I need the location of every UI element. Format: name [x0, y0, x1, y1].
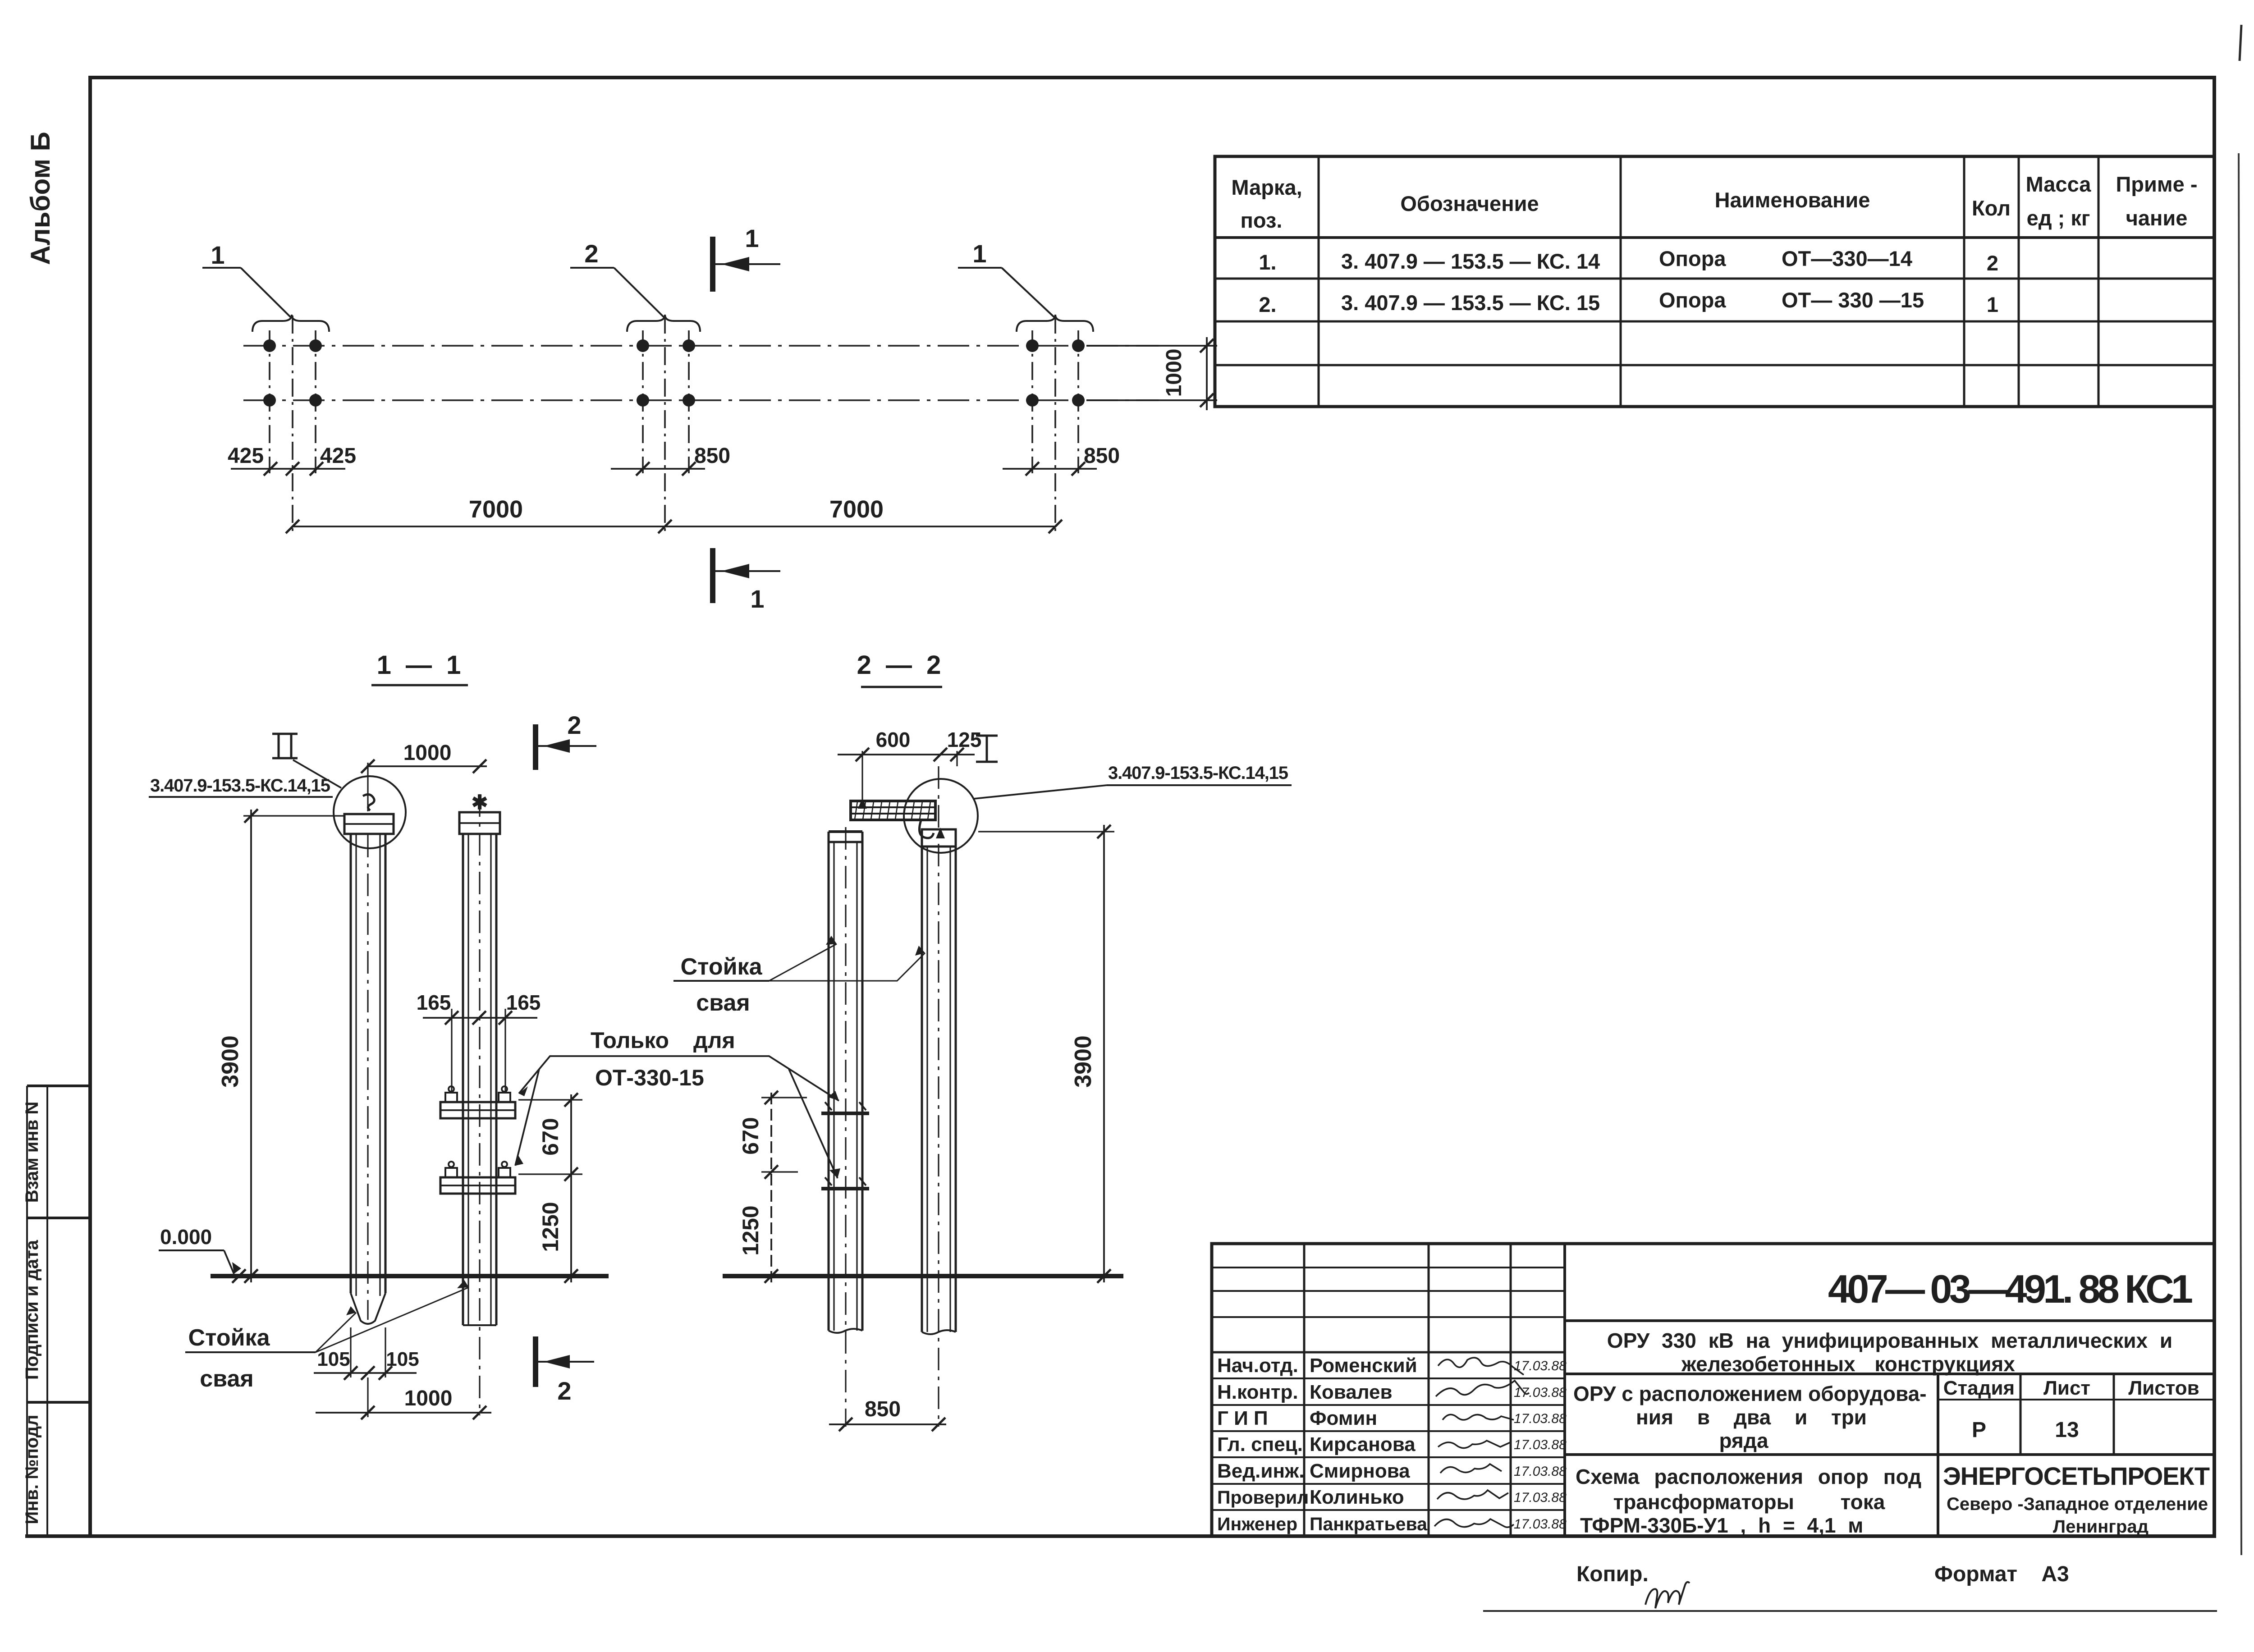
- svg-text:425: 425: [320, 444, 356, 468]
- svg-text:670: 670: [538, 1118, 563, 1155]
- svg-text:17.03.88: 17.03.88: [1514, 1359, 1567, 1373]
- svg-text:Взам инв N: Взам инв N: [22, 1102, 42, 1203]
- svg-text:3.407.9-153.5-КС.14,15: 3.407.9-153.5-КС.14,15: [1108, 763, 1288, 783]
- svg-text:Ленинград: Ленинград: [2053, 1517, 2149, 1537]
- svg-text:Стойка: Стойка: [188, 1325, 270, 1351]
- svg-text:Вед.инж.: Вед.инж.: [1217, 1460, 1304, 1482]
- svg-text:свая: свая: [200, 1366, 253, 1392]
- svg-text:ОРУ с расположением оборудова-: ОРУ с расположением оборудова-: [1573, 1382, 1927, 1405]
- svg-text:свая: свая: [696, 990, 750, 1016]
- svg-text:Обозначение: Обозначение: [1400, 192, 1539, 215]
- svg-text:105: 105: [386, 1348, 419, 1370]
- svg-text:3900: 3900: [217, 1035, 243, 1088]
- svg-text:17.03.88: 17.03.88: [1514, 1437, 1567, 1452]
- svg-text:2 — 2: 2 — 2: [857, 650, 945, 680]
- svg-text:0.000: 0.000: [160, 1225, 212, 1249]
- svg-text:Кирсанова: Кирсанова: [1310, 1433, 1416, 1455]
- svg-text:850: 850: [865, 1397, 901, 1421]
- svg-text:2: 2: [584, 239, 598, 268]
- svg-text:Схема расположения опор под: Схема расположения опор под: [1576, 1465, 1921, 1488]
- svg-text:Инженер: Инженер: [1217, 1514, 1297, 1534]
- svg-text:1000: 1000: [404, 1387, 453, 1410]
- svg-text:ОРУ 330 кВ на унифицирован: ОРУ 330 кВ на унифицированных металличес…: [1607, 1329, 2172, 1352]
- svg-text:2.: 2.: [1259, 293, 1276, 316]
- svg-text:✱: ✱: [472, 792, 488, 814]
- svg-text:Смирнова: Смирнова: [1310, 1460, 1410, 1482]
- svg-text:17.03.88: 17.03.88: [1514, 1517, 1567, 1532]
- svg-text:Альбом Б: Альбом Б: [25, 132, 55, 265]
- svg-text:17.03.88: 17.03.88: [1514, 1411, 1567, 1426]
- svg-text:1.: 1.: [1259, 250, 1276, 274]
- svg-text:Колинько: Колинько: [1310, 1486, 1404, 1508]
- svg-text:Опора: Опора: [1659, 247, 1726, 270]
- svg-text:Формат А3: Формат А3: [1934, 1562, 2069, 1586]
- svg-text:Фомин: Фомин: [1310, 1407, 1377, 1429]
- svg-text:105: 105: [317, 1348, 350, 1370]
- svg-text:1 — 1: 1 — 1: [377, 650, 465, 680]
- svg-text:трансформаторы тока: трансформаторы тока: [1613, 1490, 1885, 1514]
- svg-text:2: 2: [567, 711, 581, 739]
- svg-text:ЭНЕРГОСЕТЬПРОЕКТ: ЭНЕРГОСЕТЬПРОЕКТ: [1943, 1462, 2210, 1490]
- svg-text:Только для: Только для: [591, 1028, 735, 1053]
- svg-text:3. 407.9 — 153.5 — КС. 14: 3. 407.9 — 153.5 — КС. 14: [1341, 249, 1600, 273]
- svg-text:3. 407.9 — 153.5 — КС. 15: 3. 407.9 — 153.5 — КС. 15: [1341, 291, 1600, 315]
- svg-text:ряда: ряда: [1719, 1429, 1768, 1452]
- svg-text:Лист: Лист: [2043, 1377, 2090, 1399]
- svg-text:17.03.88: 17.03.88: [1514, 1464, 1567, 1479]
- svg-text:Г И П: Г И П: [1217, 1407, 1268, 1429]
- svg-text:1250: 1250: [538, 1202, 563, 1252]
- svg-text:3.407.9-153.5-КС.14,15: 3.407.9-153.5-КС.14,15: [150, 776, 330, 796]
- svg-text:Стадия: Стадия: [1943, 1377, 2015, 1399]
- svg-text:ед ; кг: ед ; кг: [2027, 206, 2090, 230]
- svg-text:Северо -Западное отделение: Северо -Западное отделение: [1947, 1494, 2208, 1514]
- svg-text:1000: 1000: [1162, 349, 1186, 397]
- svg-text:1: 1: [972, 239, 986, 268]
- svg-text:ния в два и три: ния в два и три: [1636, 1405, 1867, 1429]
- svg-text:Гл. спец.: Гл. спец.: [1217, 1433, 1303, 1455]
- svg-text:Стойка: Стойка: [680, 954, 762, 980]
- svg-text:чание: чание: [2126, 206, 2188, 230]
- svg-text:2: 2: [1987, 251, 1998, 275]
- svg-text:1000: 1000: [403, 741, 452, 765]
- svg-text:Наименование: Наименование: [1715, 188, 1870, 212]
- svg-text:Масса: Масса: [2026, 172, 2092, 196]
- svg-text:670: 670: [738, 1117, 763, 1154]
- svg-text:Роменский: Роменский: [1310, 1355, 1417, 1377]
- svg-text:ОТ—330—14: ОТ—330—14: [1782, 247, 1912, 270]
- svg-text:2: 2: [557, 1377, 571, 1405]
- svg-text:ОТ-330-15: ОТ-330-15: [595, 1065, 704, 1090]
- svg-text:850: 850: [694, 444, 730, 468]
- svg-text:Кол: Кол: [1972, 196, 2011, 220]
- svg-text:Р: Р: [1972, 1418, 1986, 1442]
- svg-text:165: 165: [417, 991, 451, 1014]
- svg-text:3900: 3900: [1070, 1035, 1096, 1088]
- svg-text:17.03.88: 17.03.88: [1514, 1490, 1567, 1505]
- svg-text:ТФРМ-330Б-У1 , h = 4,1 м: ТФРМ-330Б-У1 , h = 4,1 м: [1580, 1514, 1863, 1537]
- svg-text:125: 125: [947, 728, 982, 751]
- svg-text:165: 165: [506, 991, 541, 1014]
- svg-text:Опора: Опора: [1659, 288, 1726, 312]
- svg-text:7000: 7000: [829, 496, 884, 523]
- svg-text:600: 600: [876, 728, 911, 751]
- svg-text:850: 850: [1084, 444, 1120, 468]
- svg-text:Нач.отд.: Нач.отд.: [1217, 1355, 1298, 1377]
- svg-text:1250: 1250: [738, 1205, 763, 1255]
- svg-text:1: 1: [745, 224, 759, 252]
- svg-text:железобетонных конструкциях: железобетонных конструкциях: [1681, 1352, 2015, 1376]
- svg-text:17.03.88: 17.03.88: [1514, 1385, 1567, 1400]
- svg-text:7000: 7000: [469, 496, 523, 523]
- svg-text:ОТ— 330 —15: ОТ— 330 —15: [1782, 288, 1924, 312]
- svg-text:Марка,: Марка,: [1231, 175, 1302, 199]
- svg-text:Н.контр.: Н.контр.: [1217, 1381, 1298, 1403]
- svg-text:Панкратьева: Панкратьева: [1310, 1514, 1428, 1534]
- svg-text:Ковалев: Ковалев: [1310, 1381, 1393, 1403]
- svg-text:425: 425: [228, 444, 264, 468]
- svg-text:поз.: поз.: [1241, 208, 1283, 232]
- svg-text:Подписи и дата: Подписи и дата: [22, 1240, 42, 1380]
- svg-text:13: 13: [2055, 1418, 2079, 1442]
- svg-text:Приме -: Приме -: [2116, 172, 2197, 196]
- svg-text:1: 1: [1987, 293, 1998, 316]
- svg-text:Листов: Листов: [2128, 1377, 2199, 1399]
- svg-text:407— 03—491. 88 КС1: 407— 03—491. 88 КС1: [1828, 1267, 2193, 1311]
- svg-text:1: 1: [750, 585, 764, 613]
- svg-text:Проверил: Проверил: [1217, 1487, 1309, 1508]
- svg-text:Инв. №подл: Инв. №подл: [22, 1414, 42, 1524]
- svg-text:Копир.: Копир.: [1576, 1562, 1649, 1586]
- svg-text:1: 1: [211, 241, 224, 269]
